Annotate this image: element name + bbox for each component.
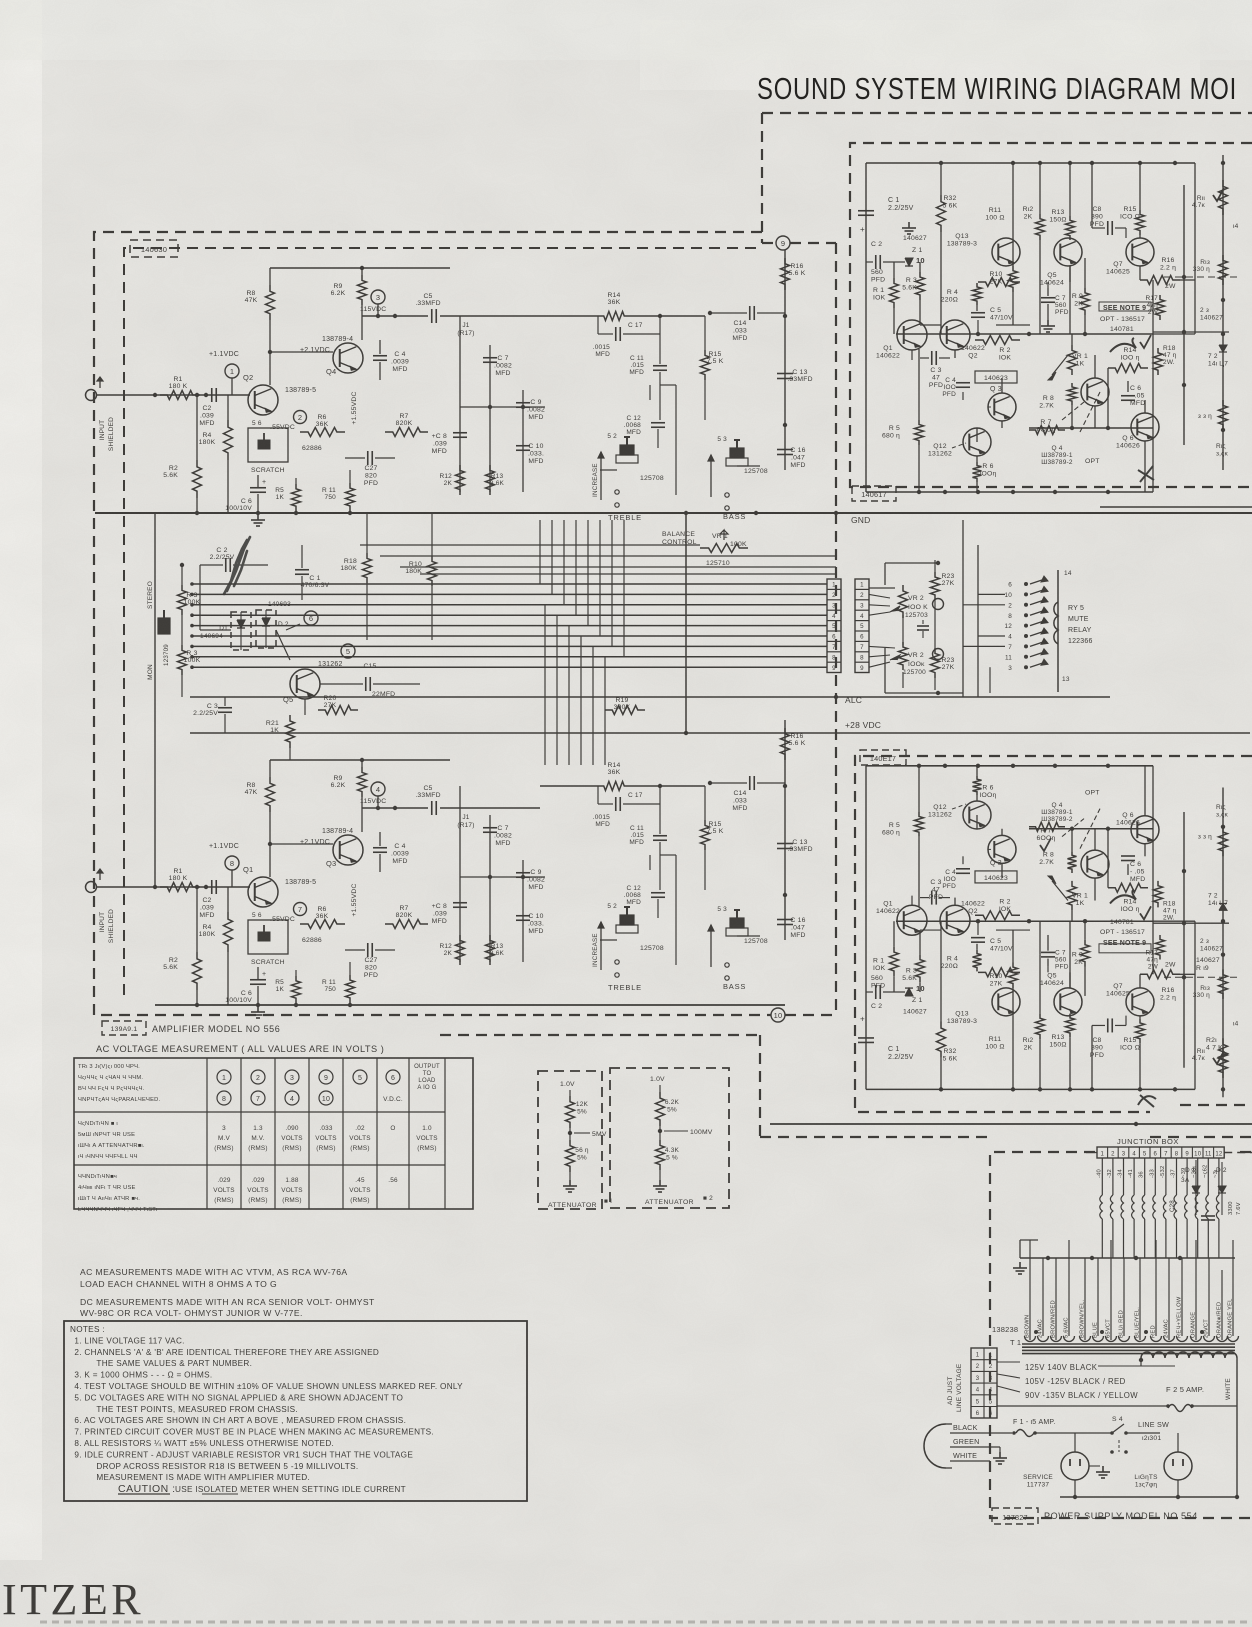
wire feed up 5 — [599, 520, 601, 636]
margin2 resistor Rc — [1198, 827, 1228, 857]
amp1 resistor R32 5.6K — [937, 163, 958, 325]
resistor R3b 100K — [178, 645, 201, 675]
table rows — [74, 1112, 445, 1165]
wire feed up 3 — [575, 520, 577, 615]
notes line 2 — [74, 1348, 379, 1357]
margin2 label 72 group — [1208, 893, 1228, 908]
dot xfmr 3 — [1200, 1330, 1204, 1334]
wire harness 8 — [190, 655, 827, 659]
amp1 transistor Q5 — [1040, 238, 1082, 287]
attenuator2 label — [645, 1195, 713, 1206]
label jb pin 4 — [1132, 1152, 1136, 1158]
notes caution — [118, 1483, 406, 1495]
table cell cond0 — [78, 1064, 161, 1103]
toneB capacitor C9 .0082MFD — [516, 869, 545, 891]
label white2 — [950, 1451, 990, 1461]
amp2 potentiometer VR1 1K — [1048, 876, 1088, 910]
label RY5 mute relay — [1068, 605, 1093, 645]
amp2 wire low rail — [1029, 827, 1153, 831]
wire xfmr lead 24VAC — [1038, 1258, 1044, 1338]
relay coil RY5 — [1054, 570, 1072, 692]
amp2 resistor R9 2K — [1072, 940, 1090, 967]
label white vert — [1225, 1378, 1232, 1400]
loop xfmr 14 — [1217, 1336, 1228, 1342]
node 10 on bottom dashed — [771, 1008, 836, 1022]
chA resistor R6 36K — [300, 414, 345, 437]
amp2 capacitor C8 390PFD — [1090, 1018, 1126, 1089]
wire jb drop 10 — [1192, 1158, 1198, 1258]
transformer secondary coil — [1139, 1352, 1237, 1497]
label lv pin 3 — [976, 1376, 993, 1382]
label jb pin 12 — [1215, 1152, 1223, 1158]
para dc — [80, 1297, 375, 1318]
toneB arrow increase bass — [708, 925, 714, 967]
wire jb drop 12 — [1213, 1158, 1219, 1258]
chB wire collector rail — [362, 806, 428, 810]
notes line 4 — [74, 1371, 212, 1380]
capacitor C2m 2.2/25V — [200, 547, 268, 572]
switch stereo-mon — [147, 513, 170, 885]
table hdr2 2 — [251, 1091, 265, 1105]
label tap 125 — [997, 1362, 1175, 1372]
loop xfmr 9 — [1151, 1336, 1162, 1342]
amp1 capacitor C3 47PFD — [920, 351, 950, 389]
notes line 11 — [74, 1450, 413, 1459]
label black — [950, 1423, 1012, 1433]
toneA resistor R16 5.6K — [781, 258, 806, 290]
table hdr output — [414, 1064, 440, 1091]
resistor R20 27K — [318, 695, 358, 715]
wire interlink 2 — [400, 566, 836, 568]
label pin 1 left — [832, 582, 836, 589]
chA resistor R7 820K — [385, 413, 428, 437]
wire feed down 2 — [568, 626, 570, 765]
wire dashed amp2 box — [855, 756, 1252, 1112]
chB capacitor C4 .0039MFD — [373, 832, 409, 872]
amp2 transistor Q7 — [1106, 983, 1154, 1016]
node 9 boundary link — [762, 242, 836, 244]
toneA capacitor C17 .0015MFD — [593, 316, 660, 358]
label lv pin 6 — [976, 1411, 993, 1417]
bottom scan edge — [40, 1621, 1252, 1624]
wire xfmr lead 65VCT — [1106, 1240, 1112, 1340]
amp1 capacitor C4 100PFD — [942, 377, 970, 398]
margin1 label 14 — [1233, 223, 1239, 230]
amp2 capacitor C5 47/10V — [971, 938, 1013, 953]
chB resistor R1 180K — [160, 868, 200, 892]
label lv pin 2 — [976, 1364, 993, 1370]
wire relay feeds — [903, 560, 935, 690]
toneA wire sw links — [600, 385, 760, 470]
chA resistor R5 1K — [275, 478, 300, 511]
chB label J1 — [457, 814, 474, 829]
chB switch scratch — [248, 912, 322, 966]
connector column J right — [855, 579, 869, 673]
table hdr vdc — [383, 1096, 403, 1103]
chB test point mid — [270, 903, 307, 924]
wire xfmr lead 20VCT — [1204, 1258, 1210, 1338]
toneA capacitor C8 .039MFD — [432, 433, 467, 455]
wire harness 1 — [190, 582, 827, 586]
table c2 col1 — [213, 1177, 234, 1204]
chB label 1.55VDC — [351, 883, 358, 916]
label jb pin 3 — [1122, 1152, 1126, 1158]
wire jb stub left — [1086, 1152, 1097, 1154]
chA label 1.55VDC — [351, 391, 358, 424]
amp2 wire top rail — [866, 1087, 1195, 1091]
wire interlink 0 — [360, 544, 700, 546]
table cell cond1 — [78, 1121, 145, 1160]
attenuator1 label — [548, 1198, 612, 1209]
fuse F1 5AMP — [1012, 1419, 1112, 1437]
amp1 resistor R18 47 — [1154, 345, 1177, 375]
amp1 wire bottom rail — [866, 490, 1153, 494]
amp2 wire left edge — [865, 766, 867, 1090]
wire jb drop 4 — [1128, 1158, 1134, 1258]
amp2 capacitor C1 2.2/25V — [858, 1015, 914, 1062]
table c1 col5 — [349, 1125, 370, 1152]
label pin 2 right — [860, 592, 864, 599]
wire feed up 7 — [623, 520, 625, 657]
wire ps bus h — [1020, 1256, 1235, 1260]
diode pack D1 — [219, 612, 251, 650]
wire harness 6 — [190, 634, 827, 638]
notes line 7 — [96, 1405, 298, 1414]
label 140693 — [268, 601, 291, 608]
margin2 resistor Ra 4.7K — [1192, 1038, 1228, 1072]
chB resistor R7 820K — [385, 905, 428, 929]
transformer T1 core — [1022, 1344, 1235, 1354]
capacitor C28 3300/7.6V — [1169, 1200, 1242, 1220]
amp2 resistor R16 2.2 — [1140, 961, 1180, 1001]
chB resistor R5 1K — [275, 970, 300, 1003]
label pin 8 right — [860, 654, 864, 661]
label jb pin 10 — [1194, 1152, 1202, 1158]
table c1 col6 — [390, 1125, 395, 1132]
chA capacitor C2 .039MFD — [199, 388, 216, 427]
connector column J left — [827, 579, 841, 673]
margin2 label 14 — [1233, 1020, 1239, 1027]
chB wire bottoms — [155, 952, 785, 1007]
label pin 1 right — [860, 582, 864, 589]
amp1 transistor Q4 opt — [1041, 378, 1109, 466]
label pin 5 left — [832, 623, 836, 630]
toneB capacitor C13 .33MFD — [777, 839, 813, 853]
test point 6 — [286, 611, 318, 630]
label box 139A9 — [102, 1021, 146, 1035]
ground ps — [1013, 1240, 1038, 1274]
chA capacitor C6 100/10V — [225, 475, 266, 513]
wire harness 4 — [190, 613, 827, 617]
wire feed up 1 — [551, 520, 553, 594]
loop xfmr 11 — [1177, 1336, 1188, 1342]
potentiometer VR2 lower — [869, 642, 944, 676]
capacitor relay cap — [917, 620, 929, 638]
relay contact 10 — [1004, 586, 1048, 599]
amp2 resistor R10 27K — [978, 968, 1020, 988]
chB capacitor C27 820PFD — [345, 943, 395, 979]
pencil X mark lower — [1138, 1095, 1156, 1107]
amp1 wire low rail — [1029, 426, 1153, 430]
chA input jack — [86, 377, 109, 401]
toneA switch S2 treble — [607, 433, 664, 507]
amp1 transistor Q13 — [947, 163, 1020, 266]
relay contact 2 — [1008, 597, 1048, 610]
amp1 resistor R15 100 — [1120, 163, 1145, 238]
notes line 8 — [74, 1416, 406, 1425]
chA wire bottoms — [195, 460, 352, 515]
potentiometer VR1 balance — [662, 513, 748, 567]
resistor R19 390K — [605, 697, 645, 715]
amp1 capacitor C5 47/10V — [971, 307, 1013, 322]
resistor R3a 100K — [178, 585, 201, 615]
amp2 resistor R11 100 — [985, 963, 1017, 1051]
amp2 transistor Q6 — [1116, 812, 1159, 844]
amp1 transistor Q12 — [928, 428, 991, 458]
wire feed up 4 — [587, 520, 589, 626]
wire feed down 4 — [592, 646, 594, 765]
toneA capacitor C7 .0082MFD — [483, 355, 512, 377]
pencil scribble — [224, 537, 250, 594]
wire harness 2 — [190, 593, 827, 597]
amp1 capacitor C1 2.2/25V — [858, 197, 914, 234]
label pin 4 left — [832, 613, 836, 620]
toneA capacitor C9 .0082MFD — [516, 399, 545, 421]
wire feed down 1 — [556, 615, 558, 765]
label pin 7 right — [860, 644, 864, 651]
label jb pin 2 — [1111, 1152, 1115, 1158]
loop xfmr 0 — [1025, 1336, 1036, 1342]
amp2 wire mid rail — [896, 919, 1153, 923]
label lv pin 4 — [976, 1388, 993, 1394]
wire xfmr lead BROWN/YEL. — [1080, 1258, 1086, 1340]
amp1 resistor R8 2.7K — [1039, 383, 1076, 410]
toneA capacitor C14 .033MFD — [708, 306, 785, 342]
toneA capacitor C10 .033MFD — [516, 443, 544, 465]
label jb pin 1 — [1101, 1152, 1105, 1158]
chA capacitor C27 820PFD — [345, 451, 395, 487]
chA wire r4 — [227, 395, 229, 420]
wire dashed left box — [94, 232, 771, 1015]
capacitor C15 22MFD — [320, 663, 420, 698]
label pin 6 right — [860, 634, 864, 641]
chA transistor Q4 — [300, 336, 363, 376]
wire jb drop 5 — [1139, 1158, 1145, 1258]
chB capacitor C5 .33MFD — [415, 785, 440, 815]
wire xfmr lead ORANGE YEL — [1228, 1240, 1234, 1338]
label green — [950, 1437, 1000, 1447]
label jb pin 6 — [1154, 1152, 1158, 1158]
chA capacitor C4 .0039MFD — [373, 340, 409, 380]
table hdr 4 — [319, 1070, 333, 1084]
amp1 wire mid rail — [896, 332, 1153, 336]
amp1 transistor Q6 — [1116, 413, 1159, 450]
loop xfmr 12 — [1191, 1336, 1202, 1342]
margin2 label r tail — [1216, 804, 1229, 819]
amp1 capacitor C2 560PFD — [866, 241, 905, 284]
wire feed down 5 — [604, 657, 606, 765]
connector junction box — [1097, 1147, 1224, 1158]
attenuator2 box — [610, 1068, 729, 1208]
toneB wire rails — [460, 786, 523, 962]
amp1 label see note — [1099, 302, 1151, 333]
chA capacitor C5 .33MFD — [415, 293, 440, 323]
wire feed down 3 — [580, 636, 582, 765]
resistor R10m 180K — [405, 513, 436, 640]
label pin 2 left — [832, 592, 836, 599]
node 9 — [776, 236, 790, 250]
relay contact 12 — [1004, 618, 1048, 631]
amp1 transistor Q3 — [988, 386, 1016, 421]
dot xfmr 2 — [1144, 1330, 1148, 1334]
chA wire input run — [108, 393, 250, 397]
amp1 resistor R4 220 — [941, 283, 982, 305]
toneA switch S3 bass — [717, 436, 768, 510]
amp1 wire interlinks — [920, 238, 1145, 492]
notes line 5 — [74, 1382, 463, 1391]
wire jb drop 7 — [1160, 1158, 1166, 1258]
chB wire base link — [268, 842, 333, 846]
amp2 wire interlinks — [920, 766, 1145, 1016]
ground ps2 — [993, 1447, 1007, 1464]
notes line 3 — [96, 1359, 252, 1368]
chB resistor R9 6.2K — [331, 767, 367, 832]
chB label input shielded — [99, 909, 115, 943]
wire jb drop 6 — [1149, 1158, 1155, 1258]
table hdr2 4 — [319, 1091, 333, 1105]
wire jb drop 9 — [1181, 1158, 1187, 1258]
amp2 resistor R4 220 — [941, 950, 982, 972]
amp1 resistor R1 10K — [873, 262, 899, 334]
notes line 12 — [96, 1462, 358, 1471]
wire jb drop 11 — [1202, 1158, 1208, 1258]
amp1 wire out right — [1153, 163, 1195, 492]
toneA wire rails — [460, 316, 523, 492]
chA resistor R8 47K — [245, 285, 275, 385]
wire feed down 0 — [544, 605, 546, 765]
wire gnd-28 link — [685, 513, 687, 733]
check mark lower — [1040, 838, 1051, 851]
amp1 resistor R2 10K — [975, 336, 1020, 362]
amp2 transistor Q12 — [928, 801, 991, 829]
loop xfmr 3 — [1064, 1336, 1075, 1342]
connector line voltage — [971, 1348, 997, 1418]
amp1 resistor R9 2K — [1072, 288, 1090, 315]
label itzer — [2, 1575, 144, 1624]
wire r3 links — [180, 563, 184, 697]
loop xfmr 10 — [1164, 1336, 1175, 1342]
table columns — [207, 1058, 445, 1209]
amp1 resistor R6 100 — [973, 456, 997, 492]
potentiometer VR2 upper — [869, 585, 944, 619]
amp2 resistor R5 680 — [882, 766, 924, 907]
amp2 resistor R2 10K — [975, 898, 1020, 919]
wire feed up 6 — [611, 520, 613, 646]
relay contact 8 — [1008, 607, 1048, 620]
amp1 transistor Q7 — [1106, 238, 1154, 276]
margin1 label r tail — [1216, 443, 1229, 458]
wire jb stub right — [1224, 1152, 1252, 1154]
dot xfmr 0 — [1034, 1330, 1038, 1334]
wire xfmr lead ORANж/RED — [1217, 1270, 1223, 1340]
chA resistor R4 180K — [199, 420, 233, 460]
toneB resistor R14 36K — [598, 762, 630, 791]
relay contact 6 — [1008, 576, 1048, 589]
amp1 resistor R12 2K — [1023, 163, 1045, 300]
margin2 resistor Rb 330 — [1193, 969, 1228, 999]
label pin 6 left — [832, 634, 836, 641]
chA resistor R2 5.6K — [163, 393, 201, 513]
toneB resistor R16 5.6K — [781, 728, 806, 760]
chA resistor R9 6.2K — [331, 275, 367, 340]
label lv pin 5 — [976, 1399, 993, 1405]
table c2 col2 — [247, 1177, 268, 1204]
amp2 wire out right — [1153, 766, 1195, 1090]
amp1 check mark — [1140, 335, 1151, 348]
wire feed up 2 — [563, 520, 565, 605]
notes line 6 — [74, 1393, 403, 1402]
chB wire c5 out — [440, 807, 540, 809]
wire harness 5 — [190, 624, 827, 628]
diode pack D2 — [256, 610, 289, 648]
label 140694 — [200, 633, 223, 640]
label jb pin 8 — [1175, 1152, 1179, 1158]
chB resistor R8 47K — [245, 777, 275, 877]
resistor R18m 180K — [340, 513, 371, 640]
wire relay feeders — [963, 520, 1005, 697]
wire jb drop 2 — [1107, 1158, 1113, 1258]
label pin 5 right — [860, 623, 864, 630]
wire interlink 1 — [380, 555, 836, 557]
label jb pin 11 — [1205, 1152, 1212, 1158]
wire xfmr lead 5.6VAC — [1064, 1240, 1070, 1338]
amp1 resistor R16 2.2 — [1140, 257, 1180, 290]
plug arc — [924, 1424, 952, 1468]
toneA label treble — [608, 513, 642, 522]
toneB arrow increase treble — [592, 922, 604, 970]
notes line 13 — [96, 1473, 310, 1482]
resistor R21 4.7K margin — [1206, 1037, 1228, 1078]
label pin 3 left — [832, 602, 836, 609]
wire dashed lower-left link — [440, 1035, 990, 1137]
transistor Q5 — [283, 661, 343, 704]
margin1 label 2.3 140627 — [1200, 307, 1223, 322]
resistor R23 lower 27K — [931, 648, 955, 678]
toneB switch S2 treble — [607, 903, 664, 977]
toneB wire mid rails — [460, 784, 705, 879]
attenuator1 box — [538, 1071, 602, 1209]
amp2 label 140623 box — [975, 871, 1017, 883]
margin2 check — [1213, 1051, 1224, 1064]
toneB capacitor C17 .0015MFD — [593, 786, 660, 828]
wire xfmr lead REЧ+YELLOW — [1177, 1258, 1183, 1338]
wire +28VDC bus — [190, 720, 1250, 735]
margin1 resistor Rb 330 — [1193, 255, 1228, 285]
toneB resistor R12 2K — [439, 935, 464, 965]
amp1 zener Z1 140627 — [902, 222, 927, 266]
loop xfmr 13 — [1204, 1336, 1215, 1342]
toneB wire sw links — [600, 855, 760, 940]
chB wire top rail — [270, 758, 450, 777]
amp2 check mark — [1140, 906, 1151, 919]
amp1 resistor R5 680 — [882, 349, 924, 492]
margin1 resistor Ra 4.7K — [1192, 180, 1228, 215]
toneB capacitor C10 .033MFD — [516, 913, 544, 935]
chA test point mid — [270, 411, 307, 432]
amp2 wire bottom rail — [866, 764, 1153, 768]
wire feed up 0 — [539, 520, 541, 584]
wire dashed amp1 box — [850, 143, 1252, 487]
